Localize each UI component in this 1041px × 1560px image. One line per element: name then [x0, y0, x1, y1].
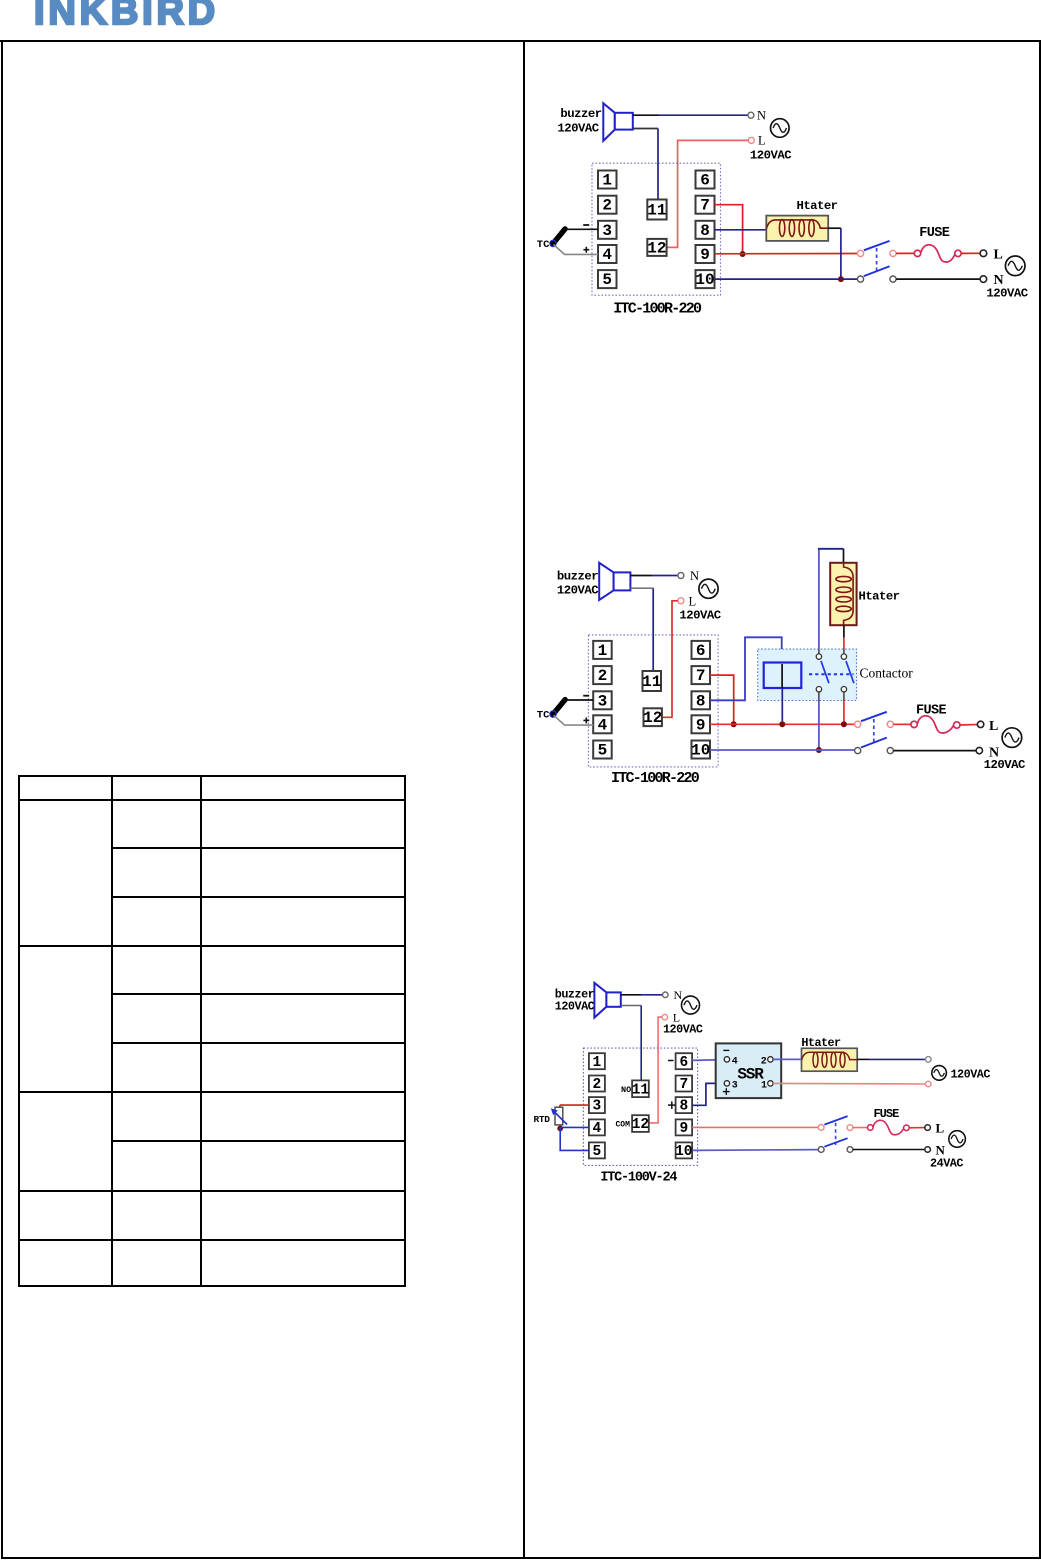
contactor coil	[764, 663, 802, 689]
DIAGRAM 2 : ITC-100R-220 with contactor	[528, 540, 1041, 790]
pin 9	[676, 1119, 693, 1137]
wire pin 9 to switch	[710, 723, 855, 725]
svg-text:ITC-100V-24: ITC-100V-24	[600, 1171, 677, 1186]
svg-text:FUSE: FUSE	[873, 1107, 899, 1121]
svg-text:10: 10	[695, 271, 714, 289]
svg-text:2: 2	[593, 1077, 602, 1093]
switch S1 link	[876, 248, 878, 273]
pin 7	[692, 666, 711, 685]
pin 8	[696, 221, 715, 240]
svg-text:L: L	[994, 247, 1003, 262]
pin 1	[598, 171, 617, 190]
wire switch to fuse	[893, 723, 911, 725]
svg-text:6: 6	[696, 642, 706, 660]
pin 11	[647, 200, 666, 220]
pin 5	[589, 1142, 605, 1160]
switch S2 link	[873, 719, 875, 744]
AC source 120VAC (heater)	[932, 1066, 947, 1081]
AC source 120VAC (buzzer supply)	[771, 119, 790, 138]
pin 11	[642, 671, 661, 691]
node N (output neutral)	[980, 273, 1004, 288]
wire buzzer to N	[621, 994, 662, 996]
svg-text:11: 11	[647, 202, 666, 220]
svg-text:9: 9	[700, 246, 710, 264]
buzzer label	[555, 988, 595, 1014]
wire pin 9 to switch	[692, 1126, 818, 1128]
pin 1	[593, 641, 612, 660]
svg-text:8: 8	[700, 222, 710, 240]
polarity label minus	[583, 695, 589, 697]
node N (mains neutral)	[748, 109, 766, 123]
svg-text:4: 4	[602, 246, 612, 264]
heater HT3	[802, 1048, 858, 1071]
wire RTD to pin 3	[560, 1105, 589, 1107]
polarity label minus (pin 6)	[668, 1060, 674, 1062]
SSR pin 2	[761, 1056, 773, 1067]
wire L to pin 12	[649, 1017, 662, 1123]
svg-text:11: 11	[642, 673, 661, 691]
DIAGRAM 1 : ITC-100R-220 with heater	[528, 95, 1041, 320]
wire switch to fuse	[853, 1127, 868, 1129]
switch S2 pole B	[855, 738, 894, 754]
svg-text:120VAC: 120VAC	[986, 287, 1028, 301]
pin 10	[695, 270, 714, 289]
pin 3	[598, 221, 617, 240]
pin 1	[589, 1053, 605, 1071]
node L (buzzer live)	[678, 594, 696, 608]
polarity label plus	[583, 718, 589, 724]
svg-text:L: L	[758, 134, 766, 148]
wire switch to N	[853, 1149, 925, 1151]
wire pin 10 to switch	[692, 1149, 818, 1152]
junction contactB/pin9	[841, 721, 847, 727]
svg-text:2: 2	[598, 667, 608, 685]
buzzer label	[557, 570, 599, 598]
buzzer label	[557, 107, 601, 136]
svg-text:Htater: Htater	[859, 590, 900, 604]
junction heater/pin10	[838, 276, 844, 282]
wire TC to pin 4	[554, 245, 599, 255]
buzzer BZ3	[594, 983, 620, 1018]
table outer verticals	[18, 775, 20, 1287]
svg-text:ITC-100R-220: ITC-100R-220	[611, 770, 700, 787]
wire contact A to heater top	[818, 549, 844, 649]
pin 8	[692, 691, 711, 710]
pin 10	[675, 1142, 692, 1160]
pin 3	[589, 1097, 605, 1115]
wire pin 7 to pin 9 line	[710, 675, 734, 724]
junction RTD bottom	[557, 1126, 563, 1132]
svg-text:7: 7	[700, 197, 710, 215]
AC source 120VAC (buzzer supply)	[682, 996, 700, 1014]
wire pin 8 to SSR pin 3	[692, 1083, 724, 1105]
contactor contact A	[816, 649, 829, 700]
SSR pin 3	[723, 1080, 738, 1095]
wire heater to AC terminal	[857, 1058, 925, 1060]
polarity label plus (pin 8)	[668, 1101, 676, 1109]
node N (mains neutral)	[976, 745, 999, 760]
wire TC to pin 3	[564, 228, 598, 230]
pin 7	[676, 1076, 693, 1094]
svg-text:6: 6	[679, 1055, 688, 1071]
AC source 120VAC mains	[1005, 256, 1025, 276]
SSR pin 4	[723, 1050, 737, 1067]
svg-text:120VAC: 120VAC	[950, 1067, 990, 1081]
wire buzzer to N	[633, 114, 748, 116]
pin 7	[696, 196, 715, 215]
table horizontal full lines	[18, 775, 406, 777]
svg-text:1: 1	[761, 1080, 767, 1091]
wire contact A to pin 10 line	[818, 701, 820, 751]
svg-text:L: L	[989, 719, 998, 734]
pin 4	[593, 715, 612, 734]
wire RTD to pin 5	[560, 1128, 589, 1150]
coil centre lead	[781, 664, 783, 688]
svg-text:3: 3	[598, 692, 608, 710]
wire buzzer to N	[630, 575, 678, 577]
wire buzzer to pin 11	[633, 129, 658, 200]
junction coil/pin9	[779, 721, 785, 727]
AC source 120VAC mains	[1002, 728, 1022, 748]
table partial row lines	[111, 847, 406, 849]
thermocouple TC	[537, 700, 565, 722]
wire heater to contact B	[843, 625, 845, 649]
wire SSR pin 2 to heater	[773, 1058, 801, 1060]
svg-text:5: 5	[593, 1144, 602, 1160]
switch S3 pole A	[818, 1116, 853, 1130]
pin 5	[593, 741, 612, 760]
switch S1 pole B	[857, 266, 896, 282]
pin 12	[647, 239, 666, 258]
wire SSR pin 1 to terminal	[773, 1082, 925, 1085]
pin 6	[692, 641, 711, 660]
svg-text:buzzer: buzzer	[557, 570, 598, 584]
controller U3 dashed outline	[583, 1048, 697, 1165]
svg-text:120VAC: 120VAC	[984, 758, 1026, 772]
wire heater to pin 10 line	[828, 228, 841, 279]
wire fuse to L	[909, 1127, 925, 1129]
pin 12	[643, 708, 662, 727]
svg-text:NO: NO	[621, 1085, 631, 1095]
contactor link dotted	[809, 673, 854, 675]
svg-text:3: 3	[732, 1080, 738, 1091]
fuse F1	[914, 245, 961, 262]
wire TC to pin 3	[564, 699, 593, 701]
wire pin 7 to pin 9 line	[715, 205, 743, 254]
svg-text:RTD: RTD	[534, 1114, 551, 1125]
svg-text:120VAC: 120VAC	[555, 1000, 595, 1014]
switch S3 link	[835, 1123, 837, 1145]
pin 3	[593, 691, 612, 710]
svg-text:L: L	[689, 594, 697, 608]
svg-text:buzzer: buzzer	[560, 107, 601, 121]
heater HT1	[766, 216, 828, 241]
svg-text:24VAC: 24VAC	[930, 1157, 963, 1171]
wire switch to fuse	[896, 252, 914, 254]
svg-text:12: 12	[632, 1117, 649, 1133]
node L (mains live)	[748, 134, 765, 148]
wire pin 8 to contactor coil	[710, 637, 782, 700]
heater HT2	[830, 563, 856, 625]
SSR pin 1	[761, 1080, 773, 1091]
controller U2 dashed outline	[588, 635, 718, 767]
wire buzzer to pin 11	[621, 1006, 641, 1081]
wire L to pin 12	[667, 140, 749, 247]
svg-text:L: L	[936, 1120, 945, 1135]
wire switch to N	[896, 278, 980, 280]
svg-text:120VAC: 120VAC	[557, 122, 599, 136]
svg-text:9: 9	[679, 1121, 688, 1137]
junction pin7/pin9	[731, 721, 737, 727]
junction pin7/pin9	[740, 251, 746, 257]
wire fuse to L	[961, 252, 980, 254]
wire TC to pin 4	[554, 715, 594, 725]
svg-text:4: 4	[593, 1121, 602, 1137]
SSR U4	[716, 1043, 782, 1098]
pin 9	[696, 245, 715, 264]
node L (buzzer live)	[662, 1011, 680, 1025]
node L (mains live)	[977, 719, 998, 734]
svg-text:9: 9	[696, 716, 706, 734]
DIAGRAM 3 : ITC-100V-24 with SSR	[528, 975, 1041, 1190]
svg-text:1: 1	[602, 172, 612, 190]
wire pin 9 to switch	[715, 253, 858, 255]
buzzer BZ2	[599, 563, 630, 600]
switch S2 pole A	[855, 712, 894, 728]
pin 6	[696, 171, 715, 190]
pin 9	[692, 715, 711, 734]
terminal (heater AC side)	[926, 1057, 932, 1063]
pin 2	[593, 666, 612, 685]
svg-text:COM: COM	[616, 1121, 631, 1130]
svg-text:5: 5	[602, 271, 612, 289]
pin 8	[676, 1097, 693, 1115]
thermocouple TC	[537, 229, 565, 251]
pin 6	[676, 1053, 693, 1071]
svg-text:5: 5	[598, 742, 608, 760]
wire pin 10 to switch	[715, 278, 858, 280]
svg-text:3: 3	[593, 1099, 602, 1115]
column divider	[523, 40, 525, 1559]
fuse F2	[911, 716, 960, 733]
svg-text:1: 1	[593, 1055, 602, 1071]
pin 12	[632, 1115, 649, 1133]
svg-text:11: 11	[632, 1082, 650, 1098]
wire RTD to pin 4	[560, 1126, 589, 1128]
svg-text:TC: TC	[537, 710, 550, 722]
node N (buzzer neutral)	[663, 988, 683, 1002]
wire pin 10 to switch	[710, 749, 855, 751]
pin 4	[589, 1119, 605, 1137]
AC source 24VAC	[949, 1131, 966, 1148]
wire L to pin 12	[662, 601, 678, 718]
fuse F3	[868, 1120, 910, 1135]
svg-text:4: 4	[598, 716, 608, 734]
contactor contact B	[841, 649, 854, 700]
wire buzzer to pin 11	[630, 588, 653, 671]
switch S1 pole A	[857, 241, 896, 257]
wire contact B to pin 9 line	[843, 701, 845, 725]
svg-text:120VAC: 120VAC	[557, 584, 599, 598]
INKBIRD logo	[34, 0, 219, 31]
svg-text:6: 6	[700, 172, 710, 190]
svg-text:8: 8	[679, 1099, 688, 1115]
svg-text:8: 8	[696, 692, 706, 710]
polarity label minus	[583, 224, 589, 226]
svg-text:10: 10	[675, 1144, 692, 1160]
svg-text:1: 1	[598, 642, 608, 660]
pin 11	[632, 1080, 650, 1098]
svg-text:Htater: Htater	[797, 199, 838, 213]
pin 5	[598, 270, 617, 289]
polarity label plus	[583, 247, 589, 253]
junction contactA/pin10	[816, 747, 822, 753]
svg-text:N: N	[757, 109, 766, 123]
pin 10	[691, 741, 710, 760]
switch S3 pole B	[818, 1138, 853, 1152]
parameter table (empty)	[0, 0, 1041, 1]
svg-text:12: 12	[643, 709, 662, 727]
page top rule	[0, 40, 1041, 42]
svg-text:N: N	[674, 988, 683, 1002]
svg-text:3: 3	[602, 222, 612, 240]
svg-text:FUSE: FUSE	[916, 704, 947, 719]
svg-text:N: N	[936, 1142, 946, 1157]
svg-text:FUSE: FUSE	[919, 226, 950, 241]
wire switch to N	[893, 750, 976, 752]
wire fuse to L	[960, 724, 977, 727]
contactor K1 outline	[758, 649, 857, 700]
wire coil to pin 9 line	[781, 688, 783, 721]
svg-text:7: 7	[679, 1077, 688, 1093]
node L (output live)	[980, 247, 1003, 262]
svg-text:TC: TC	[537, 239, 550, 251]
AC source 120VAC (buzzer supply)	[699, 579, 718, 598]
node N (buzzer neutral)	[678, 569, 699, 583]
svg-text:120VAC: 120VAC	[663, 1023, 703, 1037]
RTD sensor	[534, 1107, 568, 1125]
svg-text:10: 10	[691, 742, 710, 760]
svg-text:Contactor: Contactor	[860, 666, 914, 681]
svg-text:2: 2	[602, 197, 612, 215]
svg-text:4: 4	[732, 1056, 738, 1067]
svg-text:120VAC: 120VAC	[679, 609, 721, 623]
svg-text:120VAC: 120VAC	[750, 149, 792, 163]
wire pin 6 to SSR pin 4	[692, 1059, 724, 1062]
pin 4	[598, 245, 617, 264]
wire pin 8 to heater	[715, 229, 767, 231]
svg-text:2: 2	[761, 1056, 767, 1067]
svg-text:ITC-100R-220: ITC-100R-220	[613, 301, 702, 318]
svg-text:12: 12	[647, 239, 666, 257]
terminal (SSR pin 1 AC side)	[926, 1081, 932, 1087]
svg-text:N: N	[690, 569, 699, 583]
controller U1 dashed outline	[592, 163, 721, 295]
node N (24VAC neutral)	[925, 1142, 946, 1157]
pin 2	[598, 196, 617, 215]
buzzer BZ1	[603, 103, 633, 141]
svg-text:7: 7	[696, 667, 706, 685]
table column dividers	[111, 775, 113, 1287]
node L (24VAC live)	[925, 1120, 945, 1135]
pin 2	[589, 1076, 605, 1094]
